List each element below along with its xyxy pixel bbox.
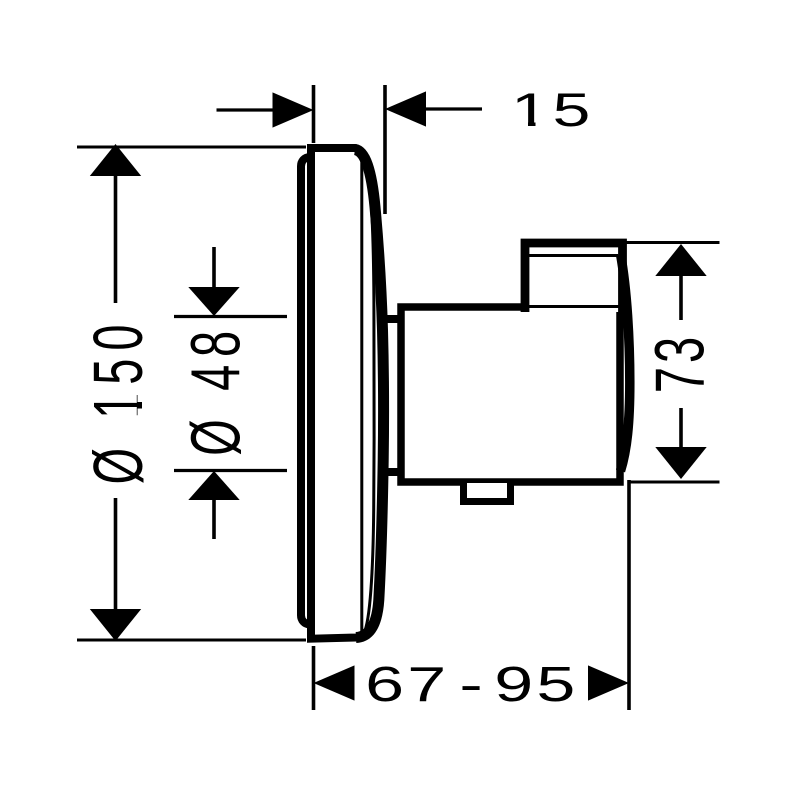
stop ring housing (small top rectangle)	[525, 243, 623, 312]
body top edge under housing	[523, 305, 620, 308]
stop ring inner line	[529, 254, 618, 257]
escutcheon cap bulge silhouette	[355, 150, 384, 638]
dim D48: top stem	[212, 247, 216, 290]
body right bulge	[621, 254, 630, 471]
svg-text:15: 15	[511, 84, 594, 136]
extension line B (right side of 15 dim)	[383, 85, 387, 214]
dim D48: down arrowhead	[188, 287, 239, 316]
escutcheon rim contour line	[364, 154, 375, 633]
dim 67-95: left extension line	[312, 646, 316, 710]
dim 15: right-pointing arrowhead	[273, 92, 314, 127]
svg-text:73: 73	[640, 333, 719, 393]
dim D150: bottom extension line	[77, 639, 306, 642]
dim D150: top extension line	[77, 146, 306, 149]
dim D48: bottom extension line	[174, 469, 287, 472]
dim D48: bottom stem	[212, 498, 216, 539]
sleeve stub top	[383, 315, 399, 323]
dim 15: right leader	[425, 107, 482, 110]
dim 73: up arrowhead	[655, 244, 706, 276]
dim 67-95: left-pointing arrowhead	[314, 665, 355, 700]
dim 73: upper stem	[679, 275, 683, 320]
svg-text:67-95: 67-95	[365, 656, 575, 711]
valve body	[401, 307, 620, 482]
dim 73: top extension line	[620, 241, 720, 244]
bottom notch	[464, 483, 511, 502]
dim 67-95: right-pointing arrowhead	[588, 665, 629, 700]
dim D150: lower stem	[114, 498, 118, 612]
escutcheon cap outline	[311, 148, 384, 639]
wall flange (back ring of escutcheon)	[301, 157, 317, 624]
dim D150: upper stem	[114, 175, 118, 303]
dim 73: lower stem	[679, 408, 683, 450]
sleeve stub bottom	[383, 468, 399, 476]
dim 15: left leader	[217, 108, 276, 111]
escutcheon front face line	[360, 153, 363, 635]
dim D48: up arrowhead	[188, 471, 239, 500]
svg-text:Ø 48: Ø 48	[176, 323, 255, 456]
glyph foot masks	[515, 121, 528, 129]
dim D150: up arrowhead	[90, 144, 141, 176]
dim 15: extension line A	[312, 85, 316, 143]
dim D150: down arrowhead	[90, 609, 141, 641]
dim 73: down arrowhead	[655, 447, 706, 479]
dim D48: top extension line	[174, 315, 287, 318]
dim 15: left-pointing arrowhead	[385, 91, 426, 126]
dim 73: bottom extension line	[630, 481, 720, 484]
dim 67-95: right extension line	[627, 480, 631, 710]
